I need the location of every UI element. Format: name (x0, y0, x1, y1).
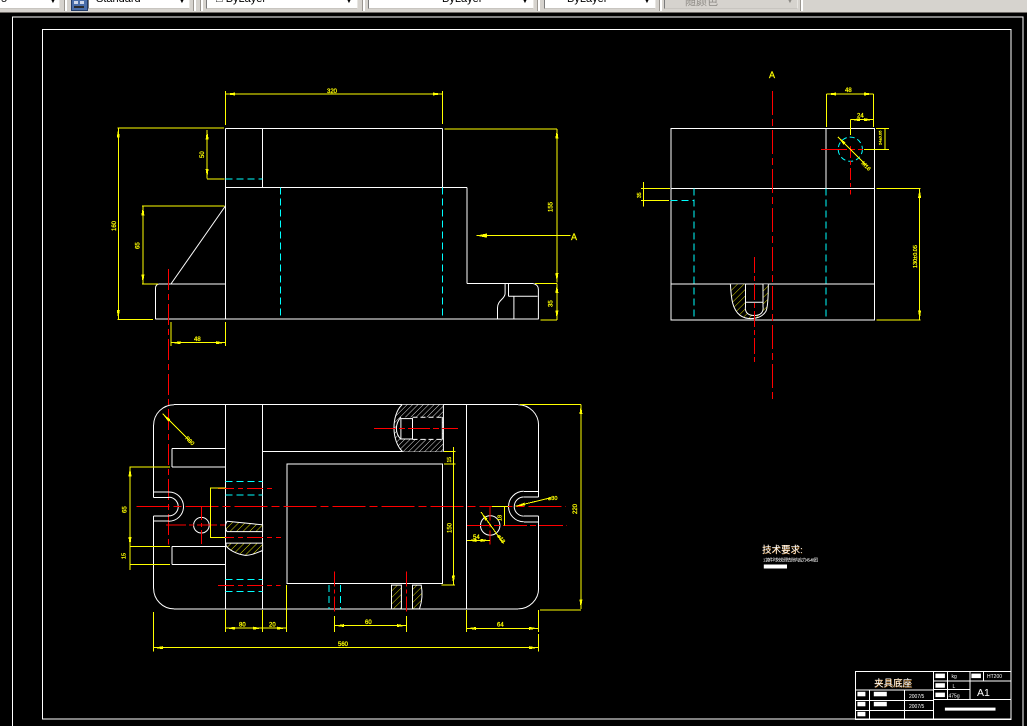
svg-text:160: 160 (112, 220, 118, 231)
front view ledge inner wall (513, 296, 515, 319)
svg-text:R30: R30 (184, 436, 195, 447)
plan boss hole right end (441, 417, 443, 439)
dim 24 (851, 119, 874, 121)
front view step line (226, 186, 467, 188)
plan view dimensions (130, 405, 581, 652)
svg-text:560: 560 (338, 642, 349, 648)
plan view corner fillets (154, 405, 175, 426)
plan bottom slot wall hatches (392, 585, 423, 609)
side view dimensions (641, 94, 921, 320)
title block main divider (932, 671, 934, 719)
plan right circle centerline vertical (489, 506, 491, 546)
plan pin section hatch band (225, 521, 262, 531)
plan right open slot arcs (509, 491, 524, 522)
plan view outline right edge lower (538, 516, 540, 588)
dim 18 bracket (503, 506, 505, 525)
section arrow A front (477, 235, 571, 237)
dim 54 right (467, 539, 490, 541)
dim 35 right lower (556, 284, 558, 320)
svg-text:475g: 475g (949, 693, 960, 699)
svg-text:A: A (571, 232, 577, 242)
svg-text:A: A (769, 70, 775, 80)
front view wedge diagonal (171, 206, 226, 284)
svg-text:35: 35 (637, 192, 643, 198)
side view slot section hatch (730, 284, 768, 318)
dim 48 top (827, 93, 874, 95)
svg-text:50: 50 (200, 151, 206, 158)
plan view outline top edge (174, 404, 518, 406)
leader dia30 (516, 498, 552, 507)
dim 80 (226, 627, 263, 629)
plan hidden hole centerline lower (218, 585, 280, 587)
side view top band divider (825, 128, 827, 188)
side circle centerline vertical (850, 146, 852, 195)
plan boss inner rect (401, 419, 413, 439)
front view top band divider (262, 129, 264, 188)
leader R30 (163, 414, 191, 442)
front view hidden line in top block (226, 178, 263, 180)
svg-text:60: 60 (365, 620, 372, 626)
front view wedge bottom line (160, 283, 226, 285)
svg-text:65: 65 (136, 242, 142, 249)
plan bottom slot centerline right (405, 571, 407, 614)
plan boss centerline (374, 428, 458, 430)
side view slot outer profile (730, 284, 768, 318)
dim jog left pin (210, 488, 225, 537)
dim 48 bottom (171, 342, 225, 344)
dim 20 (263, 627, 287, 629)
side view step line (671, 187, 874, 189)
plan right pin circle (481, 516, 500, 535)
title block right columns (947, 671, 949, 699)
dim 64 (467, 627, 539, 629)
front view hidden line left (279, 187, 281, 319)
title block filled cells (857, 692, 865, 697)
dim 150 central rect (452, 447, 454, 585)
plan left circle centerline vertical (200, 506, 202, 546)
title block left rows (855, 689, 933, 691)
plan pin centerline (218, 536, 281, 538)
side view outline (671, 128, 874, 320)
plan column right edge (262, 405, 264, 609)
svg-text:20: 20 (269, 623, 276, 629)
plan notch lower rect (172, 547, 226, 565)
dim 60 (335, 625, 407, 627)
plan left open slot arcs (169, 492, 184, 521)
svg-text:1.铸件时效处理去除内应力45-48囨: 1.铸件时效处理去除内应力45-48囨 (763, 556, 818, 563)
side view hidden line left (693, 188, 695, 320)
svg-text:220: 220 (573, 503, 579, 514)
front view dimensions (118, 91, 571, 346)
plan notch upper rect (172, 448, 226, 467)
side circle centerline horizontal (821, 148, 863, 150)
dim 155 right (556, 129, 558, 283)
svg-text:24±0.05: 24±0.05 (878, 130, 883, 145)
plan boss inner arc (396, 417, 401, 439)
front view base left edge with fillet (156, 284, 160, 319)
dim 35 left bracket (642, 188, 644, 200)
title block outline (855, 671, 1011, 719)
dim 160 left (117, 128, 119, 319)
svg-text:夹具底座: 夹具底座 (874, 678, 913, 690)
svg-text:48: 48 (845, 88, 852, 94)
front view base bottom edge (156, 318, 539, 320)
title block right rows (933, 680, 1011, 682)
plan hidden pair upper (226, 481, 263, 483)
plan right circle centerline horizontal (467, 525, 566, 527)
side view slot step line (745, 301, 763, 303)
plan view outline left edge upper (153, 425, 155, 497)
front view top band top edge (226, 128, 443, 130)
front view left edge (225, 129, 227, 320)
svg-text:HT200: HT200 (987, 674, 1002, 680)
svg-text:15: 15 (122, 553, 128, 559)
dim 65 plan left (129, 467, 131, 547)
dim bracket right of circle (884, 128, 886, 149)
plan boss outer arc (394, 405, 403, 452)
svg-text:⌀30: ⌀30 (548, 496, 557, 502)
title block signature bar (945, 708, 996, 711)
boss 15 bracket ticks (444, 451, 456, 453)
side view hidden line right (825, 188, 827, 320)
side view threaded hole circle (838, 137, 862, 161)
plan lower hatch blob (226, 543, 263, 555)
front view ledge counterbore line (509, 295, 538, 297)
svg-text:A1: A1 (977, 687, 990, 699)
plan hidden hole centerline upper (218, 487, 276, 489)
plan boss hidden thread lines (413, 417, 443, 439)
dim 560 (154, 647, 539, 649)
leader dia18 (481, 512, 504, 544)
plan left circle centerline horizontal (166, 524, 225, 526)
plan view outline bottom edge (174, 608, 518, 610)
section line A-A vertical (771, 91, 773, 401)
svg-text:80: 80 (239, 623, 246, 629)
svg-text:kg: kg (952, 674, 958, 680)
svg-text:18: 18 (498, 515, 504, 521)
tech requirements bar (764, 565, 787, 569)
svg-text:54: 54 (473, 535, 480, 541)
side view ledge line (671, 283, 874, 285)
svg-text:48: 48 (194, 337, 201, 343)
svg-text:320: 320 (327, 89, 338, 95)
plan central rectangle (287, 464, 442, 584)
title block left columns (868, 690, 870, 720)
front view ledge slot right wall (508, 284, 510, 297)
front view ledge slot left wall (498, 284, 506, 320)
front view right edge lower (466, 187, 468, 283)
application toolbar strip (cropped comboboxes) (0, 0, 1027, 13)
side view slot inner profile (745, 308, 763, 316)
svg-text:2007/5: 2007/5 (909, 694, 925, 700)
svg-text:L: L (953, 684, 956, 690)
plan hidden pair lower (226, 579, 263, 581)
front view body right edge upper (442, 129, 444, 188)
front view base right edge with fillet (533, 284, 538, 320)
front view right ledge top (467, 283, 533, 285)
centerline through front and plan views (167, 269, 169, 545)
plan main horizontal centerline (137, 506, 567, 508)
dim 15 plan left (129, 547, 131, 565)
svg-text:⌀18: ⌀18 (495, 534, 505, 545)
plan view outline left edge lower (153, 516, 155, 589)
svg-text:2007/5: 2007/5 (909, 704, 925, 710)
plan hidden bottom slot (328, 585, 330, 609)
plan boss right edge (442, 405, 444, 452)
plan right block edge (466, 405, 468, 609)
plan bottom slot centerline left (334, 571, 336, 614)
plan left open slot lines (154, 491, 169, 493)
svg-text:技术要求:: 技术要求: (762, 544, 803, 556)
front view hidden line right (441, 187, 443, 319)
svg-text:24: 24 (857, 114, 864, 120)
plan right open slot lines (524, 490, 539, 492)
svg-text:35: 35 (549, 300, 555, 307)
slot centerline below side view (753, 257, 755, 364)
leader M16 (838, 137, 867, 166)
svg-text:65: 65 (123, 506, 129, 513)
dim 320 top (226, 93, 443, 95)
plan left pin circle (194, 517, 210, 533)
dim 130 right tall (919, 188, 921, 320)
dim 220 plan right (580, 405, 582, 609)
svg-text:150: 150 (448, 522, 454, 533)
dim 50 left upper (206, 130, 208, 179)
svg-text:130±0.05: 130±0.05 (913, 245, 919, 268)
plan left block edge (225, 405, 227, 609)
plan platform line (263, 450, 444, 452)
side view hidden line horizontal (670, 199, 694, 201)
plan bottom dim row exts (225, 610, 227, 632)
svg-text:M16: M16 (860, 161, 872, 173)
dim 65 wedge (142, 206, 144, 284)
svg-text:15: 15 (447, 457, 453, 463)
svg-text:64: 64 (497, 623, 504, 629)
svg-text:155: 155 (549, 201, 555, 212)
plan top boss hatch (394, 405, 443, 452)
plan view outline right edge upper (538, 425, 540, 497)
